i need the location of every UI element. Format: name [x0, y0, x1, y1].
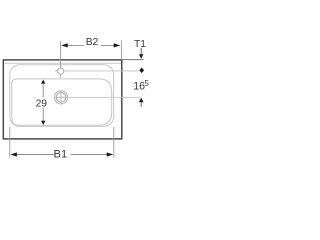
svg-text:16: 16: [133, 80, 145, 92]
svg-text:5: 5: [144, 79, 149, 88]
svg-text:B1: B1: [54, 149, 68, 161]
svg-text:29: 29: [36, 98, 48, 109]
svg-text:B2: B2: [86, 37, 99, 48]
svg-text:T1: T1: [134, 39, 146, 50]
